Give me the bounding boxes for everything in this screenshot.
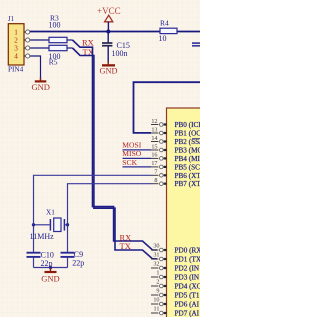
pin 2 stub [24, 39, 26, 41]
pins PD0..PD7 [151, 250, 158, 313]
svg-text:GND: GND [31, 82, 49, 92]
ground GND under C15 [100, 62, 118, 76]
resistor R5 [49, 45, 73, 66]
svg-text:PB7 (XTA: PB7 (XTA [175, 180, 201, 188]
capacitor C10 [27, 250, 54, 268]
svg-text:14: 14 [151, 135, 157, 142]
svg-text:12: 12 [151, 118, 157, 125]
svg-text:3: 3 [14, 44, 18, 52]
pin 4 stub [24, 55, 26, 57]
svg-text:1: 1 [14, 28, 18, 36]
svg-text:PB6 (XTA: PB6 (XTA [175, 172, 201, 180]
pin 1 stub [24, 31, 26, 33]
svg-text:PD0 (RX: PD0 (RX [175, 247, 201, 255]
wire PB1 loop (around top of IC) [134, 82, 201, 133]
wire RX net: R3 out, diagonal down, to vertical bus [73, 40, 158, 250]
wire XTAL1 net: PB6 to crystal left [34, 175, 152, 252]
svg-text:4: 4 [14, 52, 18, 60]
wire SCK stub [123, 166, 152, 168]
svg-text:32: 32 [153, 260, 159, 267]
svg-text:PD4 (XC: PD4 (XC [175, 283, 201, 291]
capacitor (clipped at right edge) [192, 43, 200, 46]
capacitor C9 [61, 250, 85, 268]
svg-text:SCK: SCK [122, 158, 137, 167]
svg-text:11MHz: 11MHz [30, 232, 55, 241]
svg-text:7: 7 [154, 169, 157, 176]
svg-text:GND: GND [100, 67, 118, 76]
svg-text:8: 8 [154, 177, 157, 184]
wire J1 pin4 to GND [29, 56, 40, 80]
svg-text:PD3 (IN: PD3 (IN [175, 274, 200, 282]
svg-text:PD6 (AI: PD6 (AI [175, 301, 200, 309]
node junction GND tee [49, 266, 52, 269]
wire cap commons to GND [34, 268, 68, 269]
svg-text:R4: R4 [160, 19, 169, 28]
svg-text:10: 10 [153, 296, 159, 303]
svg-text:9: 9 [156, 287, 159, 294]
power +VCC [97, 6, 121, 32]
svg-text:PB0 (ICP): PB0 (ICP) [175, 121, 201, 129]
svg-text:MISO: MISO [122, 149, 142, 158]
svg-text:16: 16 [151, 152, 157, 159]
svg-text:15: 15 [151, 143, 157, 150]
svg-text:13: 13 [151, 126, 157, 133]
svg-text:PD7 (AI: PD7 (AI [175, 310, 200, 317]
svg-text:100n: 100n [112, 49, 128, 58]
svg-text:J1: J1 [8, 16, 14, 23]
node junction VCC/C15 [106, 30, 110, 34]
pin numbers 30,31,32,1,2,9,10,11 [153, 242, 159, 312]
svg-text:PB1 (OC1): PB1 (OC1) [175, 130, 201, 138]
svg-text:TX: TX [120, 241, 131, 251]
svg-text:PB2 (SS/: PB2 (SS/ [175, 138, 201, 146]
svg-text:PB3 (MOS: PB3 (MOS [175, 147, 201, 155]
wire VCC rail y=31.5 from J1 pin1 to right edge [29, 31, 200, 33]
svg-text:100: 100 [49, 20, 61, 29]
svg-text:11: 11 [154, 305, 160, 312]
wire GND stem [50, 268, 52, 271]
svg-text:10: 10 [159, 34, 167, 43]
connector J1 [8, 16, 30, 74]
resistor R3 [49, 14, 73, 43]
pin names PD0..PD7 [175, 247, 203, 317]
svg-text:PD1 (TX: PD1 (TX [175, 256, 201, 264]
wire MISO stub [123, 157, 152, 159]
ground GND under crystal caps [41, 271, 59, 284]
resistor R4 [159, 19, 178, 43]
pins PB0..PB7 [151, 125, 158, 184]
wire J1 pin2 to R3 [29, 39, 49, 41]
pin arrows at box edge (PB group) [164, 125, 167, 184]
svg-text:PB5 (SCK: PB5 (SCK [175, 163, 201, 171]
svg-text:31: 31 [153, 251, 159, 258]
svg-text:17: 17 [151, 160, 157, 167]
pin 3 stub [24, 47, 26, 49]
pin names PB0..PB7 [175, 121, 208, 188]
op IC U1 (ATmega8 section) [167, 108, 207, 317]
svg-text:X1: X1 [46, 209, 55, 217]
svg-text:R5: R5 [49, 58, 58, 67]
node junction crystal right [66, 223, 69, 226]
pin arrows at box edge (PD group) [164, 250, 167, 313]
svg-text:2: 2 [156, 278, 159, 285]
svg-text:1: 1 [156, 269, 159, 276]
wire TX net: R5 out, diagonal down, to vertical bus [73, 48, 158, 259]
wire J1 pin3 to R5 [29, 47, 49, 49]
wire XTAL2 net: PB7 to crystal right [68, 184, 152, 252]
svg-text:PIN4: PIN4 [8, 66, 24, 74]
svg-text:30: 30 [153, 242, 159, 249]
ground GND under J1 [31, 78, 49, 93]
node junction crystal left [32, 223, 35, 226]
capacitor C15 [102, 32, 130, 63]
svg-text:22p: 22p [72, 258, 84, 267]
pin numbers 12-17,7,8 [151, 118, 157, 184]
svg-text:2: 2 [14, 36, 18, 44]
svg-text:PB4 (MIS: PB4 (MIS [175, 155, 201, 163]
svg-text:PD5 (T1: PD5 (T1 [175, 292, 200, 300]
wire MOSI stub [123, 149, 152, 151]
crystal X1 [30, 209, 68, 241]
svg-text:PD2 (IN: PD2 (IN [175, 265, 200, 273]
svg-text:GND: GND [41, 274, 59, 284]
